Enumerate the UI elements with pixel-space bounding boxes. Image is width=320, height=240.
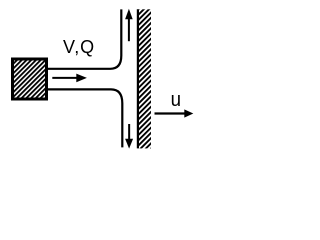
svg-text:u: u — [171, 89, 181, 111]
plate wall edge line — [137, 9, 139, 148]
plate velocity arrow u — [155, 109, 194, 117]
nozzle block — [13, 59, 47, 99]
svg-text:V,Q: V,Q — [63, 37, 95, 57]
upward deflected flow arrow — [125, 9, 133, 42]
jet velocity arrow — [52, 74, 87, 83]
plate wall hatching — [139, 9, 151, 148]
downward deflected flow arrow — [125, 124, 133, 149]
jet lower boundary wire — [48, 89, 122, 147]
jet upper boundary wire — [48, 9, 121, 68]
